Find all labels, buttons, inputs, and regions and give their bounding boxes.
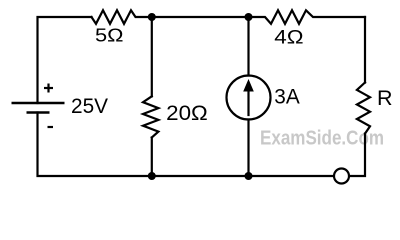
- svg-text:25V: 25V: [71, 95, 108, 118]
- svg-text:3A: 3A: [274, 85, 300, 108]
- svg-text:5Ω: 5Ω: [95, 25, 124, 46]
- svg-text:4Ω: 4Ω: [274, 27, 303, 49]
- svg-text:20Ω: 20Ω: [166, 101, 208, 125]
- svg-text:R: R: [377, 86, 393, 110]
